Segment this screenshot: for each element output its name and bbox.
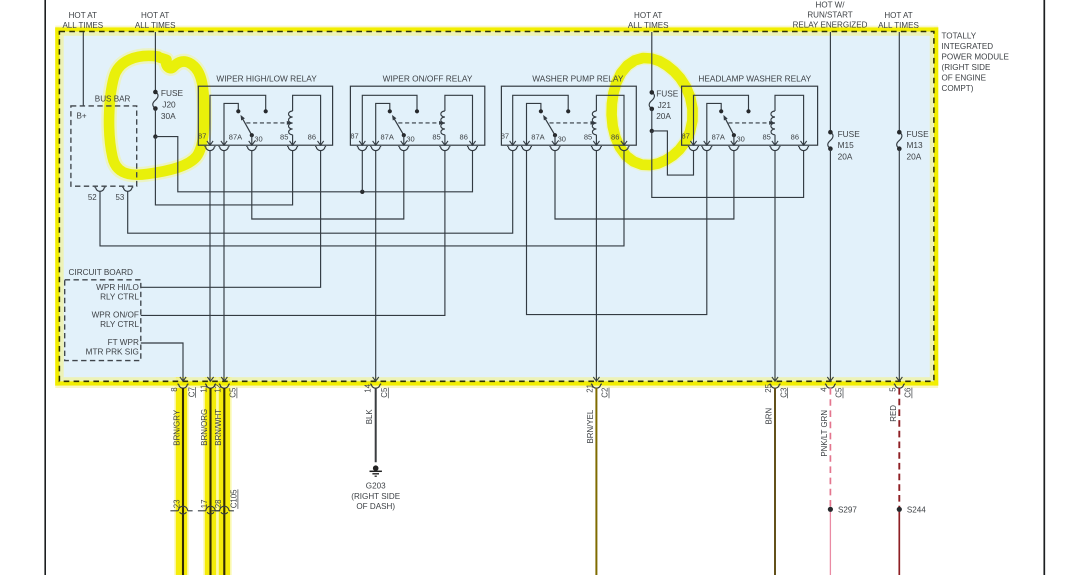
highlighter strip over BRN/WHT wire [217,377,232,575]
svg-text:BRN/WHT: BRN/WHT [214,409,223,446]
svg-text:86: 86 [308,133,316,142]
circuit board dashed box [65,280,141,361]
svg-text:BLK: BLK [365,409,374,425]
wire PNK/LT GRN (pin 4) [820,388,831,575]
connector pin 25, C3 labels [764,383,788,398]
svg-text:B+: B+ [77,112,87,121]
svg-text:ALL TIMES: ALL TIMES [135,21,176,30]
svg-text:C2: C2 [601,388,610,398]
inline connector C105 on the three wiper wires [170,506,234,514]
label: WPR HI/LO RLY CTRL [96,283,139,301]
svg-text:RED: RED [889,405,898,422]
svg-text:86: 86 [611,133,619,142]
relay U1 WIPER HIGH/LOW armature (pin 30 common) [241,115,254,145]
wire: wiper on/off relay pin 87 stub to junction [361,151,363,192]
wire: wiper high/low relay pin 87A to connector pin 12 exit [223,151,225,381]
svg-text:FUSE: FUSE [838,129,861,139]
wire: HOT W/ RUN/START feed to fuse M15 [829,32,831,132]
wire: HOT AT ALL TIMES feed to fuse J21 [651,32,653,92]
connector pin 14, C5 labels [364,383,389,398]
label: CIRCUIT BOARD [69,268,134,277]
svg-text:85: 85 [762,133,770,142]
svg-text:85: 85 [280,133,288,142]
wire BRN/YEL (pin 21) [586,388,597,575]
svg-text:ALL TIMES: ALL TIMES [628,21,669,30]
svg-text:53: 53 [116,193,125,202]
wire: fuse J20 to wiper high/low relay pin 85 [155,137,292,205]
svg-text:FT WPR: FT WPR [108,338,139,347]
relay U2 WIPER ON/OFF actuation dashed link [398,121,443,125]
relay U3 WASHER PUMP actuation dashed link [550,121,596,125]
svg-text:TOTALLY: TOTALLY [942,31,977,40]
svg-text:30: 30 [737,135,745,144]
wire: FT WPR MTR PRK SIG to connector pin 8 exit [141,343,183,381]
fuse M15 20A [828,129,860,162]
svg-text:12: 12 [214,384,223,393]
svg-text:30: 30 [254,135,262,144]
relay U4 HEADLAMP WASHER box [682,86,818,145]
wire: fuse J21 output down to junction [651,109,653,131]
svg-text:C5: C5 [229,387,238,398]
wire: bus bar pin 53 to washer pump relay pin 87 [128,151,513,233]
highlighter strip over BRN/GRY wire [174,377,189,575]
svg-text:28: 28 [214,499,223,508]
relay U2 WIPER ON/OFF coil [441,95,473,145]
wire: fuse J21 to headlamp washer relay pin 87 [652,131,694,175]
svg-text:WPR ON/OF: WPR ON/OF [92,311,139,320]
svg-text:C6: C6 [904,387,913,398]
svg-text:87A: 87A [712,133,725,142]
wire: fuse M13 output to connector exit [898,149,900,382]
relay U4 HEADLAMP WASHER pin arrows and connector cups [688,141,809,151]
svg-text:S244: S244 [907,505,926,514]
wire RED (pin 5) [889,388,900,575]
svg-text:BRN/ORG: BRN/ORG [200,409,209,446]
relay U3 WASHER PUMP coil [592,95,624,145]
svg-text:FUSE: FUSE [161,88,184,98]
svg-text:20A: 20A [838,152,853,162]
label: HOT AT ALL TIMES (fuse J21 feed) [628,11,669,30]
relay U2 WIPER ON/OFF pin labels [350,132,468,144]
label: WPR ON/OF RLY CTRL [92,311,140,329]
connector pin 12, C5 labels [214,384,238,398]
junction node on fuse J21 output [650,129,654,133]
bus bar dashed box [71,106,137,186]
page frame line (right) [1043,0,1045,575]
svg-text:C105: C105 [230,489,239,508]
svg-text:M15: M15 [838,140,855,150]
label: FT WPR MTR PRK SIG [86,338,139,356]
relay U3 WASHER PUMP armature (pin 30 common) [543,115,557,145]
wire BRN/GRY (pin 8) [173,388,184,575]
svg-text:BRN/GRY: BRN/GRY [173,409,182,446]
wire: bus bar pin 52 to washer pump relay pin 86 [100,151,624,246]
bus bar pin 52 [88,187,106,202]
svg-text:25: 25 [764,383,773,392]
junction node on fuse J20 output [153,134,157,138]
relay U1 WIPER HIGH/LOW pin arrows and connector cups [205,141,327,151]
relay U3 WASHER PUMP pin arrows and connector cups [507,141,629,151]
svg-text:86: 86 [791,133,799,142]
svg-text:INTEGRATED: INTEGRATED [942,42,994,51]
svg-text:20A: 20A [907,152,922,162]
svg-text:RELAY ENERGIZED: RELAY ENERGIZED [793,21,868,30]
label: BUS BAR [95,95,131,104]
svg-text:FUSE: FUSE [656,89,679,99]
relay U2 WIPER ON/OFF pin 87A contact [376,103,392,145]
svg-text:POWER MODULE: POWER MODULE [942,52,1010,61]
svg-text:BUS BAR: BUS BAR [95,95,131,104]
svg-text:ALL TIMES: ALL TIMES [62,21,103,30]
highlighter circle around fuse J21 [612,58,693,165]
relay U1 WIPER HIGH/LOW box [198,86,332,145]
TIPM border black dashed outline [59,32,934,382]
svg-text:BRN: BRN [765,408,774,425]
wire: wiper high/low relay pin 87 to connector pin 11 exit [209,151,211,381]
svg-text:30A: 30A [161,111,176,121]
label: TOTALLY INTEGRATED POWER MODULE (RIGHT SIDE OF ENGINE COMPT) [942,31,1010,93]
connector pin 8, C7 labels [170,387,196,398]
svg-text:30: 30 [406,135,414,144]
wire: wiper on/off relay pin 87A to connector pin 14 exit [375,151,377,381]
svg-text:HOT W/: HOT W/ [816,0,846,9]
svg-text:OF DASH): OF DASH) [356,502,395,511]
wire: fuse J20 output down to junction [154,109,156,137]
label: HOT W/ RUN/START RELAY ENERGIZED (fuse M15 feed) [793,0,868,29]
svg-text:HOT AT: HOT AT [141,11,169,20]
svg-text:HEADLAMP WASHER RELAY: HEADLAMP WASHER RELAY [698,74,811,84]
relay U2 WIPER ON/OFF title [383,74,473,84]
relay U4 HEADLAMP WASHER pin 87A contact [707,103,724,145]
relay U4 HEADLAMP WASHER actuation dashed link [728,121,773,125]
svg-text:C5: C5 [835,387,844,398]
svg-text:C3: C3 [779,387,788,398]
svg-text:RUN/START: RUN/START [807,11,852,20]
svg-text:14: 14 [364,383,373,392]
highlighter strip over BRN/ORG wire [203,377,218,575]
C105 pin labels 23, 17, 28 [173,489,239,509]
svg-text:ALL TIMES: ALL TIMES [878,21,919,30]
svg-text:J21: J21 [658,100,672,110]
wire BRN (pin 25) [765,388,776,575]
svg-text:52: 52 [88,193,97,202]
splice S244 [897,505,927,514]
relay U1 WIPER HIGH/LOW pin 87 contact [210,95,268,145]
svg-text:PNK/LT GRN: PNK/LT GRN [820,410,829,457]
svg-text:86: 86 [460,133,468,142]
fuse J21 20A [649,89,679,122]
svg-text:HOT AT: HOT AT [69,11,97,20]
relay U3 WASHER PUMP pin labels [501,132,620,144]
svg-text:87: 87 [682,132,690,141]
wire: HOT AT ALL TIMES feed into bus bar B+ [82,32,84,106]
svg-text:21: 21 [586,384,595,393]
relay U1 WIPER HIGH/LOW pin 87A contact [224,103,240,145]
relay U4 HEADLAMP WASHER pin 87 contact [694,95,751,145]
label: HOT AT ALL TIMES (fuse M13 feed) [878,11,919,30]
label: HOT AT ALL TIMES (bus bar feed) [62,11,103,30]
ground G203 symbol [370,465,382,476]
svg-text:WIPER ON/OFF RELAY: WIPER ON/OFF RELAY [383,74,473,84]
wire BRN/WHT (pin 12) [214,388,225,575]
svg-text:87: 87 [501,132,509,141]
TIPM module interior (light blue) [60,32,934,382]
svg-text:5: 5 [889,387,898,392]
wire: washer pump relay pin 87A to headlamp washer relay pin 87A [527,151,707,315]
svg-text:FUSE: FUSE [907,129,930,139]
svg-text:OF ENGINE: OF ENGINE [942,74,987,83]
fuse M13 20A [897,129,929,162]
svg-text:20A: 20A [656,111,671,121]
svg-text:23: 23 [173,499,182,508]
bus bar pin 53 [116,187,134,202]
wire: HOT AT ALL TIMES feed to fuse M13 [898,32,900,132]
wire: fuse J21 to headlamp washer relay pin 86 [652,131,804,198]
svg-text:J20: J20 [162,100,176,110]
svg-text:11: 11 [200,385,209,393]
relay U1 WIPER HIGH/LOW coil [289,95,321,145]
relay U2 WIPER ON/OFF pin arrows and connector cups [357,141,478,151]
wire: wiper on/off relay pin 85 to WPR ON/OF RLY CTRL [141,151,445,316]
relay U1 WIPER HIGH/LOW title [216,74,317,84]
svg-text:COMPT): COMPT) [942,84,974,93]
svg-text:85: 85 [432,133,440,142]
wire: wiper high/low relay pin 86 to WPR HI/LO RLY CTRL [141,151,321,287]
relay U4 HEADLAMP WASHER coil [771,95,804,145]
svg-text:C7: C7 [187,387,196,397]
relay U3 WASHER PUMP pin 87 contact [513,95,571,145]
relay U4 HEADLAMP WASHER armature (pin 30 common) [723,115,736,145]
svg-text:87: 87 [350,132,358,141]
connector pin 5, C6 labels [889,387,913,399]
highlighter circle around fuse J20 [109,56,204,175]
relay U2 WIPER ON/OFF box [350,86,484,145]
svg-text:WIPER HIGH/LOW RELAY: WIPER HIGH/LOW RELAY [216,74,317,84]
wire: wiper high/low relay pin 30 to wiper on/off relay pin 30 [252,151,404,219]
label: HOT AT ALL TIMES (fuse J20 feed) [135,11,176,30]
wire BRN/ORG (pin 11) [200,388,211,575]
relay U2 WIPER ON/OFF pin 87 contact [362,95,419,145]
svg-text:M13: M13 [907,140,924,150]
svg-text:85: 85 [584,133,592,142]
connector pin 11 label [200,385,209,393]
page frame line (left) [44,0,46,575]
wire: HOT AT ALL TIMES feed to fuse J20 [154,32,156,92]
connector pin 4, C5 labels [820,387,844,399]
wire: fuse M15 output to connector exit [829,149,831,382]
fuse J20 30A [153,88,184,121]
relay U1 WIPER HIGH/LOW actuation dashed link [246,121,291,125]
svg-text:4: 4 [820,387,829,392]
TIPM border yellow highlight band [55,26,938,388]
wire BLK (pin 14) to ground [365,388,376,462]
label: B+ [77,112,87,121]
wire: fuse J20 to wiper on/off relay pins 86 and 87 [155,137,472,192]
svg-text:S297: S297 [838,505,857,514]
svg-text:RLY CTRL: RLY CTRL [100,320,139,329]
svg-text:8: 8 [170,387,179,392]
svg-text:MTR PRK SIG: MTR PRK SIG [86,347,139,356]
svg-text:BRN/YEL: BRN/YEL [586,409,595,443]
relay U3 WASHER PUMP pin 87A contact [527,103,544,145]
relay U4 HEADLAMP WASHER pin labels [682,132,799,144]
svg-text:C5: C5 [380,387,389,398]
junction node at wiper on/off relay pin 87 branch [360,190,364,194]
svg-text:87A: 87A [381,133,394,142]
svg-text:87A: 87A [229,133,242,142]
svg-text:WASHER PUMP RELAY: WASHER PUMP RELAY [532,74,624,84]
svg-text:(RIGHT SIDE: (RIGHT SIDE [942,63,991,72]
svg-text:(RIGHT SIDE: (RIGHT SIDE [351,492,400,501]
svg-text:17: 17 [200,500,209,509]
svg-text:30: 30 [558,135,566,144]
relay U2 WIPER ON/OFF armature (pin 30 common) [392,115,406,145]
svg-text:CIRCUIT BOARD: CIRCUIT BOARD [69,268,134,277]
label: G203 (RIGHT SIDE OF DASH) [351,482,400,511]
relay U3 WASHER PUMP box [501,86,636,145]
svg-text:87: 87 [198,132,206,141]
wire: washer pump relay pin 30 to headlamp washer relay pin 30 [555,151,734,219]
svg-text:RLY CTRL: RLY CTRL [100,292,139,301]
relay U1 WIPER HIGH/LOW pin labels [198,132,316,144]
splice S297 [828,505,858,514]
svg-text:87A: 87A [531,133,544,142]
wire: washer pump relay pin 85 to connector pin 21 exit [595,151,597,381]
relay U4 HEADLAMP WASHER title [698,74,811,84]
connector pin 21, C2 labels [586,384,610,398]
connector exit arrows and cups at TIPM bottom border [178,377,905,388]
svg-text:G203: G203 [366,482,386,491]
svg-text:WPR HI/LO: WPR HI/LO [96,283,139,292]
svg-text:HOT AT: HOT AT [634,11,662,20]
wire: headlamp washer relay pin 85 to connector pin 25 exit [774,151,776,381]
relay U3 WASHER PUMP title [532,74,624,84]
svg-text:HOT AT: HOT AT [884,11,912,20]
